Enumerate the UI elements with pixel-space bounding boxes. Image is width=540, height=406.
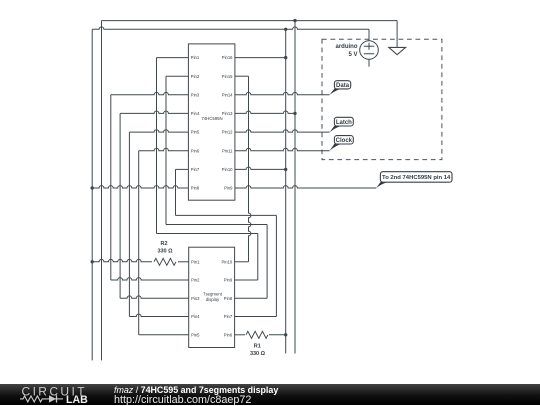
svg-text:Pin2: Pin2	[191, 278, 200, 283]
svg-text:Latch: Latch	[336, 120, 352, 126]
svg-text:Pin10: Pin10	[221, 259, 232, 264]
svg-text:R2: R2	[160, 241, 167, 247]
svg-text:Pin7: Pin7	[191, 167, 200, 172]
svg-text:Pin12: Pin12	[222, 130, 233, 135]
svg-text:Pin5: Pin5	[191, 332, 200, 337]
svg-text:Pin2: Pin2	[191, 74, 200, 79]
svg-text:Pin13: Pin13	[222, 111, 233, 116]
svg-text:arduino: arduino	[336, 44, 358, 50]
svg-text:Pin8: Pin8	[191, 186, 200, 191]
svg-text:Pin4: Pin4	[191, 314, 200, 319]
svg-text:Pin3: Pin3	[191, 92, 200, 97]
svg-text:Pin7: Pin7	[224, 314, 233, 319]
svg-text:Pin16: Pin16	[222, 55, 233, 60]
svg-text:Pin1: Pin1	[191, 259, 200, 264]
svg-text:Pin4: Pin4	[191, 111, 200, 116]
svg-text:Pin6: Pin6	[191, 148, 200, 153]
svg-text:Pin9: Pin9	[224, 278, 233, 283]
svg-text:Pin1: Pin1	[191, 55, 200, 60]
svg-text:Pin8: Pin8	[224, 296, 233, 301]
svg-text:Pin11: Pin11	[222, 148, 233, 153]
svg-text:Pin3: Pin3	[191, 296, 200, 301]
svg-text:R1: R1	[254, 344, 261, 350]
svg-text:5 V: 5 V	[348, 52, 357, 58]
svg-text:To 2nd 74HC595N pin 14: To 2nd 74HC595N pin 14	[382, 175, 451, 181]
svg-text:Clock: Clock	[336, 138, 353, 144]
svg-text:7segment: 7segment	[203, 292, 223, 297]
svg-text:Pin15: Pin15	[222, 74, 233, 79]
svg-text:display: display	[206, 297, 220, 302]
svg-text:Pin9: Pin9	[224, 186, 233, 191]
svg-text:Pin10: Pin10	[222, 167, 233, 172]
svg-text:Pin14: Pin14	[222, 92, 233, 97]
svg-text:330 Ω: 330 Ω	[157, 249, 173, 255]
svg-text:330 Ω: 330 Ω	[250, 351, 266, 357]
svg-text:Data: Data	[336, 83, 350, 89]
svg-text:74HC595N: 74HC595N	[201, 116, 222, 121]
svg-text:Pin6: Pin6	[224, 332, 233, 337]
svg-text:LAB: LAB	[66, 394, 88, 405]
svg-text:Pin5: Pin5	[191, 130, 200, 135]
